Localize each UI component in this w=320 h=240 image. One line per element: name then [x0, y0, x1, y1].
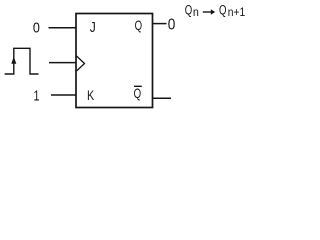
svg-text:1: 1 — [34, 87, 40, 104]
svg-text:Q: Q — [185, 3, 193, 18]
svg-text:0: 0 — [33, 20, 40, 37]
svg-text:J: J — [90, 19, 96, 36]
svg-text:Q: Q — [219, 3, 227, 18]
svg-text:K: K — [87, 87, 95, 103]
svg-text:n+1: n+1 — [228, 5, 246, 19]
svg-text:0: 0 — [168, 17, 176, 34]
svg-text:Q: Q — [135, 17, 143, 33]
svg-text:n: n — [193, 5, 199, 19]
svg-text:Q: Q — [134, 85, 142, 101]
